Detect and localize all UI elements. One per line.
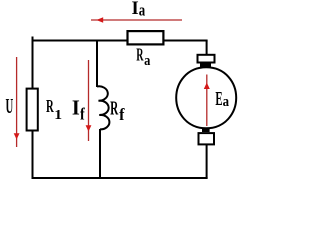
svg-text:I: I: [72, 97, 80, 119]
current arrow Ia (red, pointing left): [91, 17, 182, 22]
svg-text:U: U: [5, 94, 13, 118]
svg-text:R: R: [46, 97, 54, 116]
current arrow If (red, pointing down): [86, 60, 92, 141]
wire: left rail top stub above corner: [32, 37, 34, 43]
svg-text:1: 1: [54, 108, 62, 123]
wire: right rail drop to bottom rail: [206, 145, 208, 179]
wire: middle branch upper segment: [96, 41, 98, 88]
svg-text:a: a: [144, 52, 150, 68]
wire: top rail right segment (Ra to right corner): [163, 40, 208, 42]
svg-text:f: f: [119, 105, 125, 124]
inductor Rf (field winding coil): [97, 86, 109, 129]
svg-text:R: R: [110, 96, 119, 120]
motor M bottom brush holder: [199, 133, 215, 144]
motor M bottom brush pad: [202, 129, 210, 132]
EMF arrow Ea (red, pointing up): [204, 75, 210, 127]
resistor Ra (armature resistance): [128, 31, 164, 44]
label If: [72, 97, 85, 124]
svg-text:I: I: [132, 0, 139, 19]
wire: left rail upper segment: [32, 41, 34, 90]
wire: bottom rail: [32, 177, 208, 179]
label Ia: [132, 0, 146, 20]
resistor R1: [27, 89, 38, 131]
wire: top rail left segment (left corner to Ra): [32, 40, 129, 42]
wire: middle branch lower segment: [99, 129, 101, 179]
label Ra: [136, 45, 150, 68]
svg-text:R: R: [136, 45, 144, 65]
motor M top brush pad: [200, 64, 211, 68]
svg-text:a: a: [223, 93, 230, 109]
motor M armature circle: [176, 67, 236, 128]
voltage arrow U (red, pointing down): [14, 57, 20, 147]
label Ea: [215, 88, 229, 110]
wire: right rail drop to top brush: [206, 41, 208, 56]
label R1: [46, 97, 62, 123]
svg-text:a: a: [139, 2, 146, 20]
svg-text:f: f: [80, 105, 85, 124]
label Rf: [110, 96, 125, 124]
motor M top brush holder: [198, 55, 215, 63]
svg-text:E: E: [215, 88, 222, 110]
wire: left rail lower segment: [32, 130, 34, 179]
